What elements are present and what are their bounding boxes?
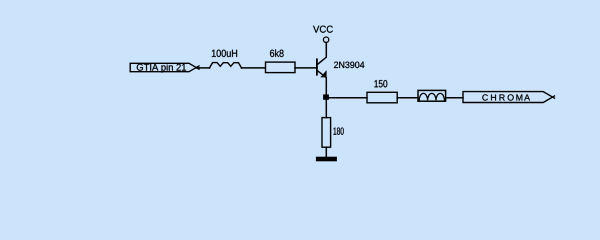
label CHROMA — [482, 94, 530, 100]
Q1 emitter — [318, 71, 327, 95]
label 100uH — [212, 50, 237, 57]
wire L1 to R1 — [241, 67, 265, 69]
label GTIA pin 21 — [137, 64, 186, 73]
wire FB1 to CHROMA flag — [446, 97, 463, 99]
inductor L1 100uH — [209, 63, 241, 68]
Q1 collector — [318, 43, 327, 65]
label 150 — [374, 80, 387, 87]
wire node to R2 — [329, 97, 367, 99]
resistor R2 150 — [367, 92, 397, 103]
wire R3 to ground — [325, 147, 327, 157]
wire R2 to FB1 — [397, 97, 418, 99]
ferrite bead FB1 box — [418, 90, 446, 101]
wire R1 to Q1 base — [295, 67, 317, 69]
label VCC — [313, 26, 333, 33]
net label CHROMA flag — [463, 92, 555, 103]
wire node down to R3 — [325, 99, 327, 118]
resistor R3 180 (vertical) — [322, 118, 331, 148]
net label GTIA pin 21 flag — [130, 63, 199, 71]
label 2N3904 — [334, 62, 364, 69]
wire flag to L1 — [197, 67, 210, 69]
node junction dot — [323, 94, 329, 99]
Q1 emitter arrow — [320, 70, 326, 77]
ground symbol — [316, 157, 337, 162]
resistor R1 6k8 — [266, 62, 296, 73]
VCC terminal circle — [323, 37, 328, 42]
ferrite bead FB1 humps — [419, 93, 444, 100]
transistor Q1 base bar — [316, 59, 318, 74]
label 6k8 — [270, 49, 284, 57]
label 180 — [334, 127, 344, 134]
